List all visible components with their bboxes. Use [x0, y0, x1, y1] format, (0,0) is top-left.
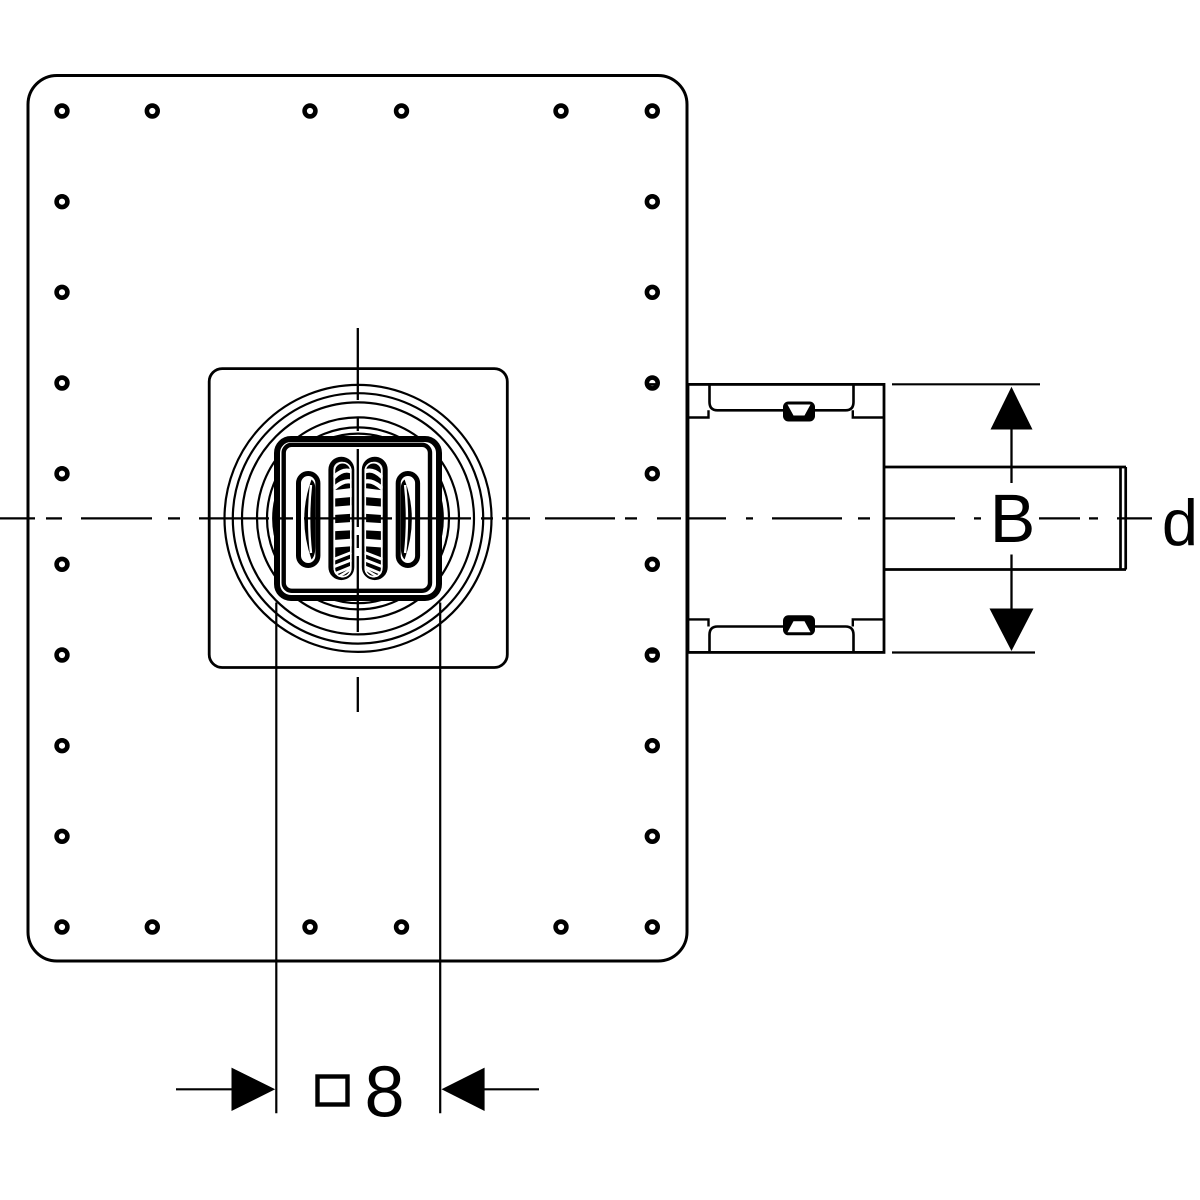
outlet bottom right step — [853, 619, 884, 626]
right arrow of square-8 dimension — [478, 1088, 539, 1090]
outlet coupling body — [688, 384, 884, 652]
grate slot far left — [299, 474, 318, 566]
grate outer square — [277, 439, 439, 598]
grate slot mid left — [331, 459, 352, 577]
svg-text:B: B — [990, 481, 1036, 557]
grate slot mid right — [364, 459, 385, 577]
flange plate (outer rounded rectangle) — [28, 76, 687, 962]
grate size leader lines — [275, 603, 277, 1114]
outlet top left step — [688, 410, 709, 417]
outlet bottom left step — [688, 619, 709, 626]
concentric funnel circles — [225, 385, 492, 652]
outlet top right step — [853, 410, 884, 417]
grate inner square — [284, 445, 430, 591]
outlet bottom clip — [783, 615, 815, 635]
grate slot far right — [398, 474, 417, 566]
dimension B up arrow — [991, 387, 1033, 430]
svg-text:d: d — [1162, 486, 1198, 559]
outlet bottom collar bar — [710, 627, 854, 653]
outlet top clip — [783, 402, 815, 422]
outlet edge seen through hole — [646, 383, 659, 386]
dimension B extension lines — [892, 383, 1040, 385]
outlet pipe — [884, 467, 1126, 570]
outlet top collar bar — [710, 384, 854, 410]
dimension B down arrow — [990, 609, 1034, 652]
left arrow of square-8 dimension — [176, 1088, 236, 1090]
vertical centerline — [357, 328, 359, 712]
horizontal centerline — [0, 517, 1152, 519]
outlet edge seen through hole — [646, 651, 659, 654]
flange screw holes — [57, 106, 658, 933]
square symbol — [318, 1077, 348, 1105]
svg-text:8: 8 — [364, 1052, 404, 1132]
sealing frame (rounded square around drain) — [209, 369, 507, 668]
